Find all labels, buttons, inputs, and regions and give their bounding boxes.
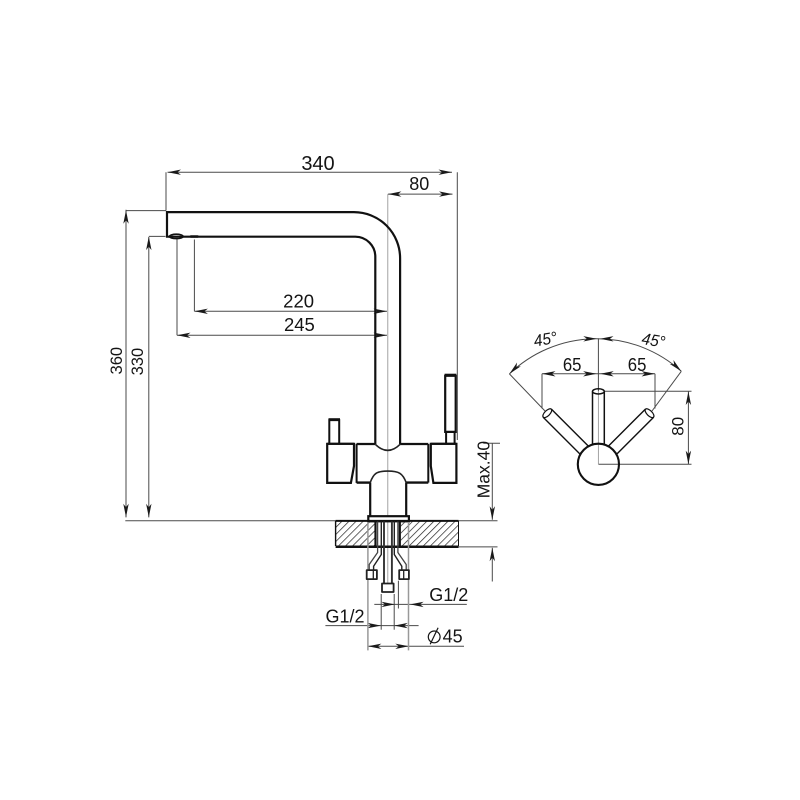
svg-text:330: 330 (129, 348, 147, 376)
svg-text:G1/2: G1/2 (429, 585, 468, 605)
svg-text:360: 360 (108, 347, 126, 375)
svg-text:65: 65 (563, 355, 582, 375)
svg-text:80: 80 (409, 174, 429, 194)
svg-text:340: 340 (301, 153, 334, 175)
svg-text:45: 45 (443, 627, 463, 647)
svg-text:Max.40: Max.40 (473, 441, 493, 499)
svg-text:G1/2: G1/2 (325, 607, 364, 627)
svg-text:245: 245 (284, 314, 315, 335)
svg-text:220: 220 (283, 291, 314, 312)
svg-text:80: 80 (669, 417, 688, 436)
svg-text:65: 65 (628, 355, 647, 375)
